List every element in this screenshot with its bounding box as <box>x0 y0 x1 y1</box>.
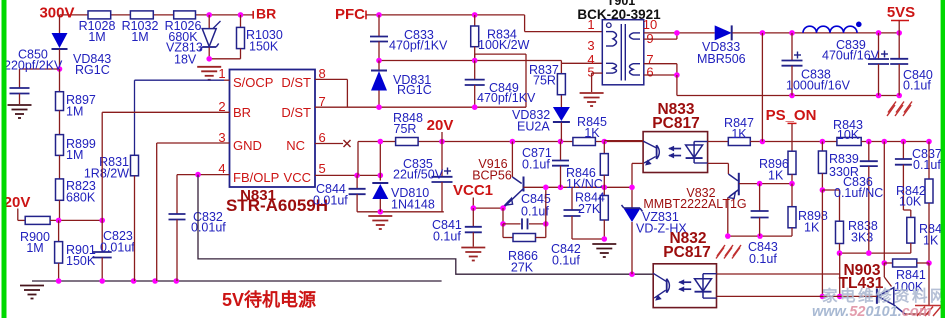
svg-text:1K: 1K <box>768 169 784 183</box>
ground for VZ813 <box>197 66 221 68</box>
node VZ831 anode on feedback wire <box>629 271 635 277</box>
resistor R823 <box>59 155 61 179</box>
ground for R844 <box>592 243 616 245</box>
svg-text:BR: BR <box>256 6 276 22</box>
TL431 cathode wire <box>717 295 877 297</box>
svg-text:0.1uf/NC: 0.1uf/NC <box>834 186 883 200</box>
svg-text:D/ST: D/ST <box>281 105 311 120</box>
svg-text:4: 4 <box>218 161 225 176</box>
secondary pin 10 wire <box>644 32 715 34</box>
svg-text:1M: 1M <box>26 241 43 255</box>
svg-text:470uf/16V: 470uf/16V <box>822 49 880 63</box>
capacitor C850 <box>20 68 60 70</box>
R839 to TL431 cathode <box>821 190 823 296</box>
svg-text:20V: 20V <box>427 117 454 134</box>
svg-text:0.01uf: 0.01uf <box>191 221 226 235</box>
resistor R900 <box>17 209 19 221</box>
resistor R1028 <box>88 11 111 19</box>
svg-text:20V: 20V <box>4 194 31 211</box>
svg-text:5VS: 5VS <box>887 4 915 21</box>
svg-text:27K: 27K <box>578 202 601 216</box>
svg-text:100K/2W: 100K/2W <box>478 38 530 52</box>
svg-text:0.01uf: 0.01uf <box>100 241 135 255</box>
svg-text:RG1C: RG1C <box>397 83 432 97</box>
svg-text:GND: GND <box>233 138 262 153</box>
svg-text:10: 10 <box>643 17 657 32</box>
zener diode VZ813 <box>208 15 210 29</box>
svg-text:18V: 18V <box>174 53 197 67</box>
capacitor C841 <box>472 208 474 227</box>
svg-text:MMBT2222ALT1G: MMBT2222ALT1G <box>643 197 746 211</box>
transistor V916 <box>511 142 513 178</box>
svg-text:VCC1: VCC1 <box>453 182 493 199</box>
svg-text:6: 6 <box>646 65 653 80</box>
svg-text:1M: 1M <box>66 148 83 162</box>
resistor R866 loop <box>502 224 504 238</box>
svg-text:VCC: VCC <box>284 170 311 185</box>
ground for VD810 <box>368 215 392 217</box>
ground for C850 <box>8 104 32 106</box>
N832 collector pull wire <box>717 273 840 275</box>
svg-text:1K: 1K <box>804 221 820 235</box>
svg-text:EU2A: EU2A <box>517 120 550 134</box>
svg-text:PC817: PC817 <box>663 244 710 261</box>
V832 emitter node wire <box>728 235 792 237</box>
PFC wire <box>366 14 525 16</box>
svg-text:1: 1 <box>587 17 594 32</box>
svg-text:220pf/2KV: 220pf/2KV <box>4 59 63 73</box>
svg-text:3: 3 <box>587 38 594 53</box>
secondary return wire <box>676 75 678 96</box>
ground slant top right <box>887 105 895 116</box>
primary ground rail <box>32 280 442 282</box>
capacitor C836 <box>868 142 870 162</box>
svg-text:75R: 75R <box>533 74 556 88</box>
secondary pin 6 wire <box>644 74 677 76</box>
resistor R839 <box>821 142 823 152</box>
resistor R899 <box>59 111 61 135</box>
svg-text:PS_ON: PS_ON <box>766 107 817 124</box>
svg-text:6: 6 <box>319 130 326 145</box>
diode VD832 <box>560 95 562 107</box>
net label BR <box>252 11 254 19</box>
N833 transistor-side pins <box>604 140 643 142</box>
resistor R847 <box>728 138 750 146</box>
capacitor C823 <box>101 220 103 252</box>
green border stripes <box>2 0 7 318</box>
V832 base wire <box>739 183 792 185</box>
svg-text:FB/OLP: FB/OLP <box>233 170 279 185</box>
rail to PS_ON section <box>750 141 837 143</box>
svg-text:BR: BR <box>233 105 251 120</box>
svg-text:10K: 10K <box>837 128 860 142</box>
svg-text:150K: 150K <box>66 254 96 268</box>
svg-text:R839: R839 <box>829 152 859 166</box>
capacitor C835 electrolytic <box>441 142 443 177</box>
svg-text:470pf/1KV: 470pf/1KV <box>389 39 448 53</box>
svg-text:0.1uf: 0.1uf <box>552 254 580 268</box>
svg-text:0.1uf: 0.1uf <box>522 158 550 172</box>
svg-text:PFC: PFC <box>335 6 365 23</box>
resistor R843 <box>837 138 861 146</box>
capacitor C844 <box>356 175 358 188</box>
svg-text:0.1uf: 0.1uf <box>903 79 931 93</box>
capacitor C839 electrolytic <box>878 33 880 59</box>
drain node dots <box>376 104 382 110</box>
svg-text:470pf/1KV: 470pf/1KV <box>477 91 536 105</box>
svg-text:0.1uf: 0.1uf <box>749 252 777 266</box>
svg-text:NC: NC <box>286 138 305 153</box>
svg-text:1K: 1K <box>731 127 747 141</box>
capacitor C842 <box>571 187 573 210</box>
svg-text:22uf/50V: 22uf/50V <box>393 168 444 182</box>
V916 base wire <box>524 186 633 188</box>
svg-text:1K/NC: 1K/NC <box>566 177 603 191</box>
node VD843 cathode <box>57 66 63 72</box>
svg-text:S/OCP: S/OCP <box>233 75 273 90</box>
resistor R897 <box>59 69 61 92</box>
resistor R896 <box>791 124 793 151</box>
capacitor C849 <box>474 61 476 80</box>
TL431 ref node wire <box>883 142 885 264</box>
capacitor C832 <box>176 175 178 214</box>
svg-text:D/ST: D/ST <box>281 75 311 90</box>
svg-text:1K: 1K <box>923 234 939 248</box>
drain snubber link <box>525 54 527 107</box>
svg-text:680K: 680K <box>66 191 96 205</box>
svg-text:1M: 1M <box>66 105 83 119</box>
diode VD810 <box>379 142 381 181</box>
ground bottom-left <box>20 285 44 287</box>
svg-text:1: 1 <box>218 66 225 81</box>
capacitor C871 <box>560 142 562 161</box>
pin 5 ground wire <box>592 72 603 74</box>
diode VD833 <box>715 25 732 40</box>
svg-text:1K: 1K <box>584 126 600 140</box>
svg-text:1000uf/16V: 1000uf/16V <box>786 79 851 93</box>
zener diode VZ831 <box>631 187 633 208</box>
svg-text:0.01uf: 0.01uf <box>313 194 348 208</box>
N833 LED-side pins <box>708 141 729 143</box>
V916 emitter wire <box>473 207 503 209</box>
ground for T901 pin5 <box>580 92 604 94</box>
ground slant 5V return <box>888 102 896 113</box>
resistor R840 <box>903 209 910 211</box>
snubber bottom wire <box>379 60 561 62</box>
resistor R841 <box>884 262 892 264</box>
svg-text:5: 5 <box>319 161 326 176</box>
capacitor C837 <box>902 142 904 160</box>
svg-text:PC817: PC817 <box>652 115 699 132</box>
ground for C841 <box>461 247 485 249</box>
resistor R1030 <box>240 15 242 28</box>
svg-text:www.520101.com: www.520101.com <box>812 304 932 318</box>
resistor R1026 <box>174 11 196 19</box>
feedback wire to opto N832 anode <box>198 175 653 275</box>
secondary pin 9 wire <box>644 38 677 40</box>
svg-text:0.1uf: 0.1uf <box>433 230 461 244</box>
PS_ON feed from 5V <box>761 33 763 142</box>
resistor R838 <box>822 189 839 191</box>
svg-text:1M: 1M <box>88 30 105 44</box>
svg-text:0.1uf: 0.1uf <box>521 205 549 219</box>
TL431 anode ground <box>928 263 930 306</box>
svg-text:MBR506: MBR506 <box>697 52 746 66</box>
svg-text:BCP56: BCP56 <box>472 169 512 183</box>
resistor R834 <box>474 15 476 26</box>
wire VZ813 anode to R1030 <box>209 58 240 60</box>
svg-text:10K: 10K <box>899 195 922 209</box>
svg-text:150K: 150K <box>249 40 279 54</box>
svg-text:RG1C: RG1C <box>75 63 110 77</box>
svg-text:1R8/2W: 1R8/2W <box>84 167 129 181</box>
VCC snubber bottom wire <box>357 211 444 213</box>
inductor <box>803 26 857 33</box>
svg-text:0.1uf: 0.1uf <box>913 158 941 172</box>
svg-text:1N4148: 1N4148 <box>391 198 435 212</box>
20V supply rail <box>358 141 645 143</box>
node junction on BR bus <box>206 12 212 18</box>
resistor R837 <box>560 63 562 73</box>
wire 300V top bus <box>60 14 254 16</box>
divider bottom wire <box>840 252 911 254</box>
shunt regulator N903 TL431 symbol <box>876 289 878 304</box>
svg-text:1M: 1M <box>131 30 148 44</box>
ground slant near N832 <box>717 245 725 256</box>
transistor V832 <box>727 163 729 174</box>
resistor R844 <box>603 187 605 195</box>
node divider bottom <box>56 218 62 224</box>
svg-text:3K3: 3K3 <box>851 231 873 245</box>
diode VD831 <box>378 61 380 71</box>
capacitor C838 electrolytic <box>791 33 793 61</box>
svg-text:300V: 300V <box>39 5 74 22</box>
resistor R1032 <box>130 11 153 19</box>
svg-text:75R: 75R <box>394 122 417 136</box>
capacitor C833 <box>378 15 380 37</box>
capacitor C843 <box>759 184 761 211</box>
resistor R842 <box>928 142 930 180</box>
IC N831 STR-A6059H box <box>230 70 316 188</box>
capacitor C840 <box>898 33 900 59</box>
svg-text:5V待机电源: 5V待机电源 <box>222 289 316 310</box>
ground slant V832 <box>716 248 724 259</box>
svg-text:27K: 27K <box>511 261 534 275</box>
capacitor C845 row <box>502 208 504 224</box>
resistor R831 <box>131 155 139 176</box>
resistor R898 <box>791 184 793 207</box>
svg-text:家电维修资料网: 家电维修资料网 <box>822 286 945 305</box>
resistor R848 <box>396 138 419 146</box>
resistor R845 <box>573 138 596 146</box>
resistor R901 <box>58 220 60 241</box>
secondary pin 7 wire <box>644 63 677 65</box>
resistor R846 <box>603 142 605 154</box>
diode VD843 <box>59 15 61 33</box>
